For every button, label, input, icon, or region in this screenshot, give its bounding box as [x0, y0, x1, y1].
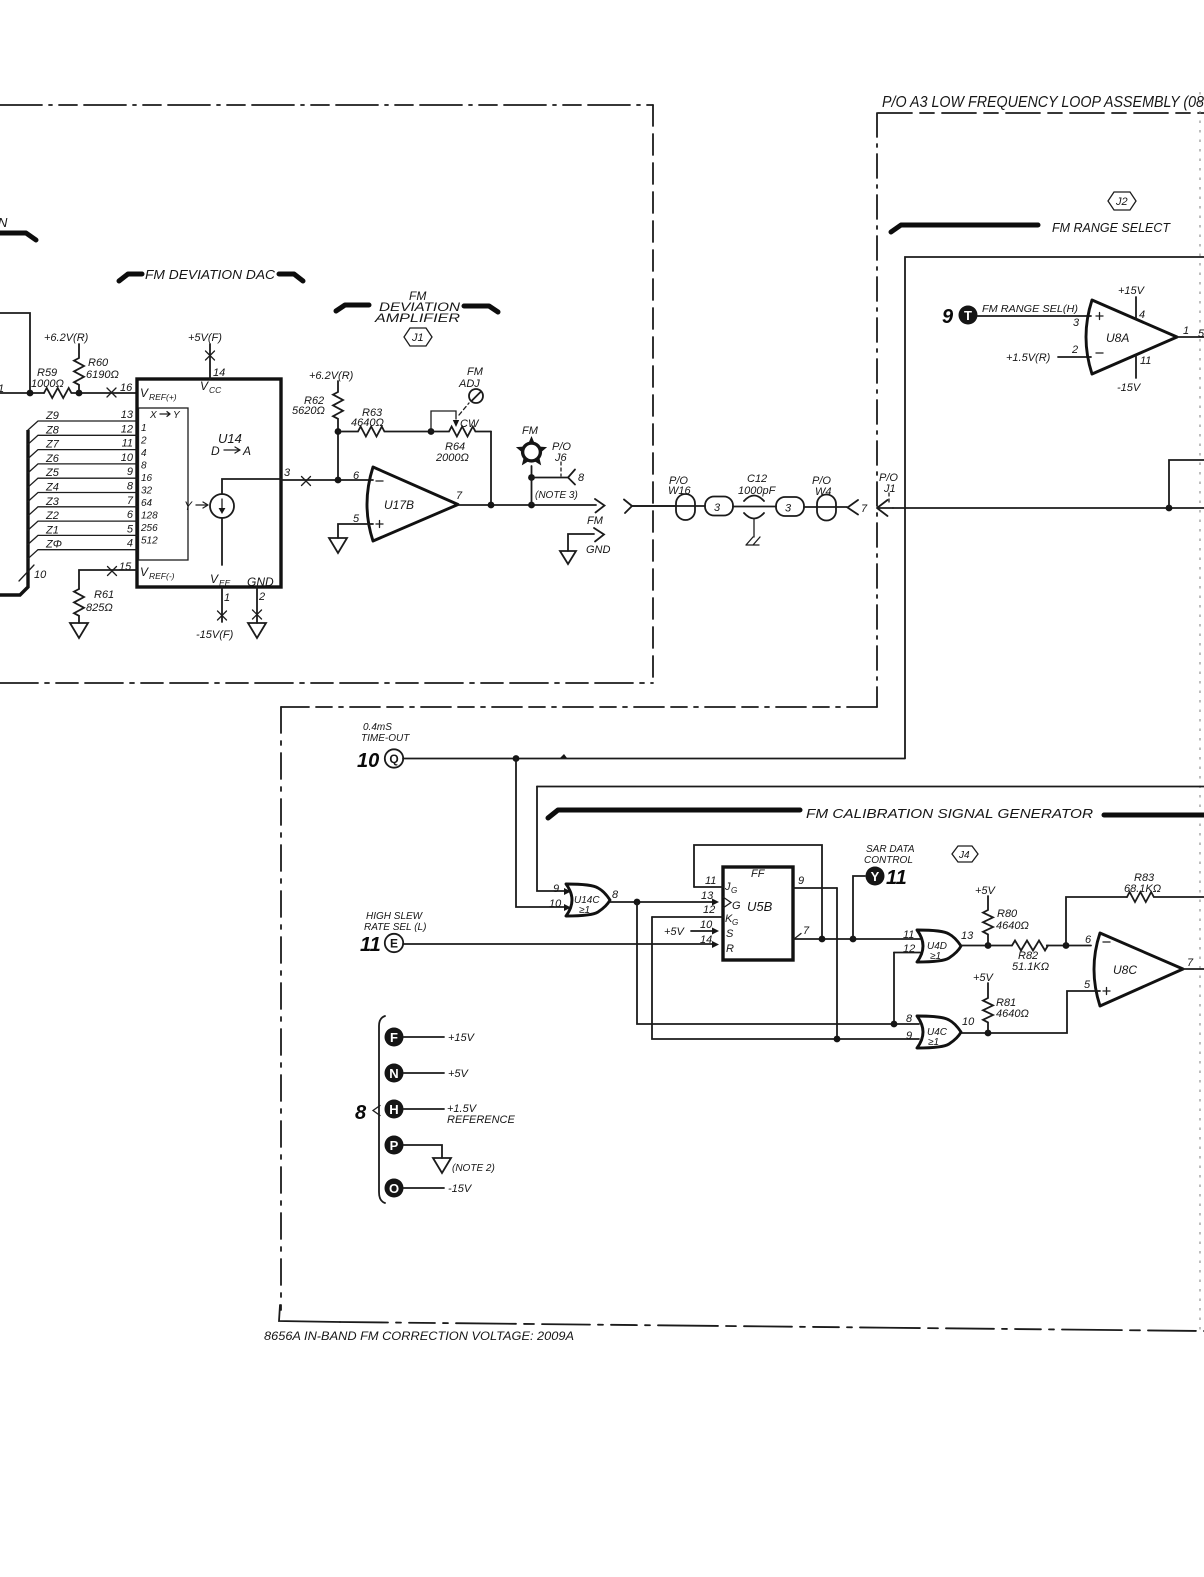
- chevron at W4 end: [848, 500, 859, 515]
- U5B flip-flop outline: [723, 867, 793, 960]
- svg-text:J1: J1: [411, 332, 424, 344]
- wire Z bus line Z2: [28, 509, 137, 530]
- resistor R61: [74, 589, 114, 623]
- vertical from branch to output: [531, 478, 533, 506]
- page edge dotted line: [1199, 92, 1201, 1330]
- wire Y11 down to pin7 rail: [853, 876, 865, 939]
- svg-text:W4: W4: [815, 486, 832, 498]
- svg-text:11: 11: [903, 929, 914, 941]
- K-G pin label: [725, 913, 738, 927]
- current source circle inside U14: [210, 494, 234, 518]
- svg-text:8: 8: [612, 889, 619, 901]
- svg-text:8: 8: [127, 481, 134, 493]
- svg-text:FM RANGE SEL(H): FM RANGE SEL(H): [982, 304, 1078, 315]
- svg-text:12: 12: [703, 904, 715, 916]
- svg-text:Z3: Z3: [45, 496, 60, 508]
- svg-text:10: 10: [549, 898, 562, 910]
- ground below U17B + input: [329, 538, 347, 553]
- svg-text:ZΦ: ZΦ: [45, 539, 62, 551]
- power terminal bracket: [379, 1016, 385, 1203]
- svg-text:2000Ω: 2000Ω: [435, 452, 469, 464]
- node dot output/R64: [488, 502, 495, 509]
- svg-text:J2: J2: [1115, 196, 1128, 208]
- svg-text:J6: J6: [554, 452, 568, 464]
- svg-text:TIME-OUT: TIME-OUT: [361, 733, 410, 744]
- U4D pin 12 wire: [894, 952, 920, 954]
- svg-text:8656A IN-BAND FM CORRECTION VO: 8656A IN-BAND FM CORRECTION VOLTAGE: 200…: [264, 1329, 574, 1343]
- J1 hex badge: [404, 328, 432, 346]
- node dot R62/R63: [335, 428, 342, 435]
- assembly border: left box top edge (dash-dot): [0, 104, 653, 106]
- svg-text:AMPLIFIER: AMPLIFIER: [374, 311, 461, 325]
- svg-text:N: N: [0, 215, 8, 230]
- svg-text:CC: CC: [209, 385, 222, 395]
- svg-text:13: 13: [121, 409, 134, 421]
- op-amp U17B: [367, 467, 458, 541]
- svg-text:J4: J4: [958, 850, 970, 861]
- svg-text:51.1KΩ: 51.1KΩ: [1012, 961, 1049, 973]
- svg-text:7: 7: [1187, 957, 1194, 969]
- svg-text:13: 13: [961, 930, 974, 942]
- OR gate U4C: [917, 1016, 961, 1048]
- svg-text:+5V: +5V: [448, 1068, 470, 1080]
- svg-text:+5V: +5V: [973, 972, 995, 984]
- A3 lower box left edge (dash-dot): [280, 707, 282, 1310]
- heading: FM RANGE SELECT: [891, 220, 1171, 235]
- svg-text:+5V: +5V: [664, 926, 686, 938]
- svg-text:R61: R61: [94, 589, 114, 601]
- shielded segment marker 3 (right): [776, 497, 804, 516]
- A3 lower box bottom-left corner (solid): [279, 1305, 340, 1322]
- svg-text:CONTROL: CONTROL: [864, 855, 913, 866]
- op-amp U8A: [1086, 300, 1177, 374]
- svg-text:U14: U14: [218, 431, 242, 446]
- svg-text:EE: EE: [219, 578, 231, 588]
- svg-text:Z4: Z4: [45, 482, 59, 494]
- svg-text:U8A: U8A: [1106, 331, 1129, 345]
- svg-text:4640Ω: 4640Ω: [351, 417, 384, 429]
- branch wire up and off right edge: [1169, 460, 1204, 508]
- wire to C12: [733, 506, 776, 508]
- resistor R81: [983, 983, 1029, 1033]
- P/O W4 cable marker: [804, 475, 847, 521]
- resistor R80: [983, 896, 1029, 946]
- svg-text:9: 9: [553, 883, 559, 895]
- svg-text:V: V: [210, 572, 219, 586]
- svg-text:D: D: [211, 444, 220, 458]
- svg-text:4640Ω: 4640Ω: [996, 1008, 1029, 1020]
- svg-text:3: 3: [1073, 317, 1080, 329]
- terminal P: [385, 1136, 443, 1159]
- op-amp U8C: [1094, 933, 1183, 1006]
- svg-text:GND: GND: [586, 544, 611, 556]
- pin 7 output wire: [793, 938, 920, 940]
- FM ADJ screw symbol: [458, 366, 484, 415]
- J4 hex badge: [952, 846, 978, 862]
- GND stub arrow and ground: [560, 528, 611, 564]
- node dot at (79,393): [76, 390, 83, 397]
- node dot R63/R64: [428, 428, 435, 435]
- VREF(-) label: [140, 565, 175, 581]
- svg-text:2: 2: [1071, 344, 1078, 356]
- svg-text:1: 1: [224, 592, 230, 604]
- blip on 10Q wire: [560, 754, 567, 758]
- svg-text:+15V: +15V: [448, 1032, 476, 1044]
- svg-text:FM DEVIATION DAC: FM DEVIATION DAC: [145, 267, 276, 282]
- svg-text:CW: CW: [460, 418, 480, 430]
- X mark on pin15 wire: [108, 567, 117, 576]
- wire + input to ground: [338, 524, 373, 538]
- J2 hex badge: [1108, 192, 1136, 210]
- wire 11E to U5B pin 14 R: [403, 943, 713, 945]
- U4D output wire: [961, 945, 1091, 947]
- svg-text:Y: Y: [871, 869, 880, 884]
- svg-text:11: 11: [122, 438, 133, 450]
- svg-text:5620Ω: 5620Ω: [292, 405, 325, 417]
- FM output arrow: [587, 499, 605, 527]
- svg-text:+5V: +5V: [975, 885, 997, 897]
- svg-text:FF: FF: [751, 868, 766, 880]
- svg-text:G: G: [732, 900, 741, 912]
- svg-text:V: V: [140, 386, 149, 400]
- FM test point star: [516, 425, 547, 477]
- feedback wire up to R83: [1066, 897, 1127, 946]
- wire branch x=637 down to y=1024 rail: [637, 902, 919, 1024]
- svg-text:10: 10: [121, 452, 134, 464]
- svg-text:5: 5: [1084, 979, 1091, 991]
- svg-text:64: 64: [141, 498, 153, 509]
- J6 connector chevron pin 8: [568, 470, 575, 485]
- wire branch x=537 down to U14C input 9: [537, 787, 565, 892]
- svg-text:N: N: [389, 1066, 398, 1081]
- svg-text:T: T: [964, 308, 972, 323]
- terminal 11E HIGH SLEW RATE SEL (L): [360, 911, 426, 956]
- terminal N +5V: [385, 1064, 470, 1083]
- svg-text:Z7: Z7: [45, 439, 60, 451]
- clock dynamic indicator: [723, 897, 731, 908]
- P/O J6 label: [552, 441, 571, 464]
- svg-text:(NOTE 2): (NOTE 2): [452, 1163, 495, 1174]
- terminal F +15V: [385, 1028, 476, 1047]
- wire Q down to y=1039 rail: [836, 888, 838, 1039]
- continuation chevron to W16: [624, 500, 676, 514]
- FM range select box outline: [905, 257, 1204, 758]
- svg-text:14: 14: [700, 934, 712, 946]
- svg-text:U5B: U5B: [747, 899, 773, 914]
- wire Z bus line Z5: [28, 466, 137, 487]
- svg-text:10: 10: [962, 1016, 975, 1028]
- wire J1 to right edge: [893, 507, 1204, 509]
- wire Z bus line Z6: [28, 452, 137, 473]
- svg-text:10: 10: [700, 919, 713, 931]
- resistor R59: [31, 367, 137, 398]
- bus width slash 10: [19, 565, 47, 581]
- svg-text:Z6: Z6: [45, 453, 60, 465]
- svg-text:FM: FM: [587, 515, 604, 527]
- svg-text:+15V: +15V: [1118, 285, 1146, 297]
- resistor R82: [1012, 940, 1049, 973]
- svg-text:11: 11: [705, 875, 716, 887]
- input arrowhead pin 9: [564, 888, 571, 895]
- svg-text:6: 6: [1085, 934, 1092, 946]
- svg-text:E: E: [390, 937, 398, 951]
- svg-text:5: 5: [127, 523, 134, 535]
- svg-text:4: 4: [1139, 309, 1145, 321]
- pin 9 Q output wire: [793, 887, 837, 889]
- svg-text:6: 6: [127, 509, 134, 521]
- svg-text:825Ω: 825Ω: [86, 602, 113, 614]
- node dot R81: [985, 1030, 992, 1037]
- svg-text:O: O: [389, 1181, 399, 1196]
- wire Z bus line Z1: [28, 523, 137, 544]
- ground below P (NOTE 2): [433, 1158, 495, 1174]
- shielded segment marker 3 (left): [705, 497, 733, 516]
- J6 connector dash line: [560, 462, 562, 476]
- svg-text:3: 3: [785, 503, 792, 515]
- svg-text:REFERENCE: REFERENCE: [447, 1114, 516, 1126]
- svg-text:G: G: [732, 918, 738, 927]
- heading: FM DEVIATION DAC: [119, 267, 303, 282]
- U8C + input wire: [961, 991, 1100, 1033]
- A3 assembly top edge (dashed): [878, 112, 1204, 114]
- resistor R63: [338, 407, 431, 437]
- VCC label: [200, 379, 222, 395]
- svg-text:Z1: Z1: [45, 524, 59, 536]
- wire to U8A - input: [1058, 356, 1091, 358]
- wire branch x=516 down to U14C input 10: [516, 759, 565, 908]
- wire Z bus line Z0: [28, 538, 137, 559]
- svg-text:4640Ω: 4640Ω: [996, 920, 1029, 932]
- svg-text:9: 9: [798, 875, 804, 887]
- svg-text:U8C: U8C: [1113, 963, 1137, 977]
- svg-text:Q: Q: [389, 752, 398, 766]
- svg-text:R: R: [726, 943, 734, 955]
- U14 inner X->Y decoder box: [139, 408, 189, 560]
- wire Z bus line Z4: [28, 481, 137, 502]
- terminal H +1.5V REFERENCE: [385, 1100, 516, 1127]
- svg-text:16: 16: [141, 473, 153, 484]
- assembly border: left box bottom edge (dash-dot): [0, 682, 653, 684]
- node dot 10Q/U14C branch: [513, 755, 520, 762]
- svg-text:8: 8: [141, 461, 147, 472]
- A3 lower box bottom edge (dash-dot): [340, 1322, 1204, 1331]
- terminal 10Q 0.4mS TIME-OUT: [357, 722, 410, 772]
- svg-text:11: 11: [1140, 355, 1151, 367]
- pin 12 K wire: [652, 916, 723, 918]
- svg-text:SAR DATA: SAR DATA: [866, 844, 915, 855]
- resistor R62: [292, 381, 343, 431]
- D->A label: [211, 444, 251, 458]
- wire y=786 off right edge: [537, 786, 1204, 788]
- svg-text:8: 8: [578, 472, 585, 484]
- wire to U8A + input: [977, 315, 1091, 317]
- wire pin3 to U17B input node: [281, 479, 373, 481]
- pin 11 wire: [694, 886, 723, 888]
- resistor R60: [74, 344, 119, 393]
- svg-text:+1.5V(R): +1.5V(R): [1006, 352, 1051, 364]
- node dot U14C output branch: [634, 899, 641, 906]
- svg-text:C12: C12: [747, 473, 767, 485]
- terminal 9T FM RANGE SEL(H): [942, 304, 1078, 328]
- svg-text:7: 7: [127, 495, 134, 507]
- X mark pin2: [253, 610, 262, 619]
- S pin wire: [691, 930, 713, 932]
- potentiometer R64: [431, 411, 491, 464]
- VREF(+) label: [140, 386, 177, 402]
- svg-text:-15V: -15V: [448, 1183, 473, 1195]
- wire Z bus line Z7: [28, 438, 137, 459]
- svg-text:11: 11: [360, 934, 381, 956]
- feedback loop Q-bar top: [694, 845, 822, 939]
- Z data bus (thick): [0, 430, 28, 595]
- P/O W16 cable marker: [632, 475, 705, 520]
- svg-text:3: 3: [284, 467, 291, 479]
- input arrowhead pin 10: [564, 904, 571, 911]
- svg-text:16: 16: [120, 382, 133, 394]
- arrowhead at S pin: [712, 928, 719, 935]
- svg-text:7: 7: [803, 925, 810, 937]
- OR gate U14C: [566, 884, 610, 916]
- svg-text:X: X: [149, 410, 157, 421]
- svg-text:32: 32: [141, 486, 153, 497]
- svg-text:+6.2V(R): +6.2V(R): [309, 370, 354, 382]
- node dot star/J6 branch: [528, 474, 535, 481]
- svg-text:0.4mS: 0.4mS: [363, 722, 392, 733]
- svg-text:H: H: [389, 1102, 398, 1117]
- svg-text:14: 14: [213, 367, 225, 379]
- svg-text:-15V(F): -15V(F): [196, 629, 234, 641]
- svg-text:128: 128: [141, 511, 158, 522]
- svg-text:12: 12: [121, 423, 133, 435]
- svg-text:REF(+): REF(+): [149, 392, 177, 402]
- ground below R61: [70, 623, 88, 638]
- svg-text:+6.2V(R): +6.2V(R): [44, 332, 89, 344]
- svg-text:FM: FM: [467, 366, 484, 378]
- svg-text:2: 2: [258, 591, 265, 603]
- terminal O -15V: [385, 1179, 473, 1198]
- svg-text:Z5: Z5: [45, 467, 60, 479]
- svg-text:-15V: -15V: [1117, 382, 1142, 394]
- svg-text:ADJ: ADJ: [458, 378, 480, 390]
- node dot pin7/SAR: [850, 936, 857, 943]
- node dot pin7/loop: [819, 936, 826, 943]
- assembly border: left box right edge: [652, 105, 654, 683]
- OR gate U4D: [917, 930, 961, 962]
- X mark pin1: [218, 611, 227, 620]
- svg-text:RATE SEL (L): RATE SEL (L): [364, 922, 426, 933]
- svg-text:FM RANGE SELECT: FM RANGE SELECT: [1052, 220, 1171, 235]
- U14C output wire to U5B clock: [610, 901, 715, 903]
- svg-text:15: 15: [119, 561, 132, 573]
- svg-text:(NOTE 3): (NOTE 3): [535, 490, 578, 501]
- svg-text:10: 10: [357, 750, 379, 772]
- wire Z bus line Z3: [28, 495, 137, 516]
- svg-text:A: A: [242, 444, 251, 458]
- svg-text:6: 6: [353, 470, 360, 482]
- X mark on pin14 wire: [206, 351, 215, 360]
- heading: FM DEVIATION AMPLIFIER: [336, 289, 498, 325]
- wire pin 11 to -15V: [1135, 355, 1137, 378]
- P/O J1 connector label: [879, 472, 898, 505]
- heading fragment swoosh: [0, 233, 36, 240]
- wire pin15 to R61: [79, 570, 137, 589]
- wire branch to J6 pin 8: [532, 477, 569, 479]
- svg-text:Z8: Z8: [45, 424, 60, 436]
- svg-text:7: 7: [861, 503, 868, 515]
- svg-text:Z2: Z2: [45, 510, 59, 522]
- svg-text:1000Ω: 1000Ω: [31, 378, 64, 390]
- arrowhead at R pin: [712, 941, 719, 948]
- svg-text:9: 9: [942, 306, 954, 328]
- svg-text:256: 256: [140, 523, 158, 534]
- wire +5V(F) to pin 14: [209, 344, 211, 379]
- node dot R80: [985, 942, 992, 949]
- svg-text:≥1: ≥1: [928, 1037, 939, 1048]
- wire current source to pin 3: [222, 479, 281, 494]
- X mark on pin3 wire: [302, 477, 311, 486]
- Y-> arrow label: [184, 499, 208, 513]
- node dot R82/R83 junction: [1063, 942, 1070, 949]
- svg-text:R80: R80: [997, 908, 1018, 920]
- svg-text:S: S: [726, 928, 734, 940]
- heading: FM CALIBRATION SIGNAL GENERATOR: [548, 806, 1204, 821]
- node dot at x=1169: [1166, 505, 1173, 512]
- wire y=393 into R59: [0, 392, 44, 394]
- svg-text:512: 512: [141, 536, 158, 547]
- svg-text:≥1: ≥1: [579, 905, 590, 916]
- ground below pin2: [248, 623, 266, 638]
- svg-text:V: V: [200, 379, 209, 393]
- svg-text:≥1: ≥1: [930, 951, 941, 962]
- wire branch x=652 down to y=1039 rail: [652, 917, 919, 1039]
- svg-text:8: 8: [355, 1102, 367, 1124]
- svg-text:1: 1: [141, 423, 147, 434]
- node dot output/star: [528, 502, 535, 509]
- svg-text:4: 4: [141, 448, 147, 459]
- svg-text:HIGH SLEW: HIGH SLEW: [366, 911, 424, 922]
- svg-text:4: 4: [127, 538, 133, 550]
- J-G pin label: [724, 881, 737, 895]
- svg-text:8: 8: [906, 1013, 913, 1025]
- svg-text:FM: FM: [522, 425, 539, 437]
- svg-text:7: 7: [456, 490, 463, 502]
- svg-text:9: 9: [127, 466, 133, 478]
- wire R62 down to inverting node: [337, 431, 339, 480]
- J1 entry arrow: [877, 500, 893, 516]
- VEE label: [210, 572, 231, 588]
- node dot at inverting input: [335, 477, 342, 484]
- svg-text:GND: GND: [247, 575, 274, 589]
- svg-text:68.1KΩ: 68.1KΩ: [1124, 883, 1161, 895]
- svg-text:9: 9: [906, 1030, 912, 1042]
- svg-text:+5V(F): +5V(F): [188, 332, 222, 344]
- pin 2 wire to ground: [256, 587, 258, 623]
- svg-text:6190Ω: 6190Ω: [86, 369, 119, 381]
- U8A output wire: [1177, 336, 1204, 338]
- Q-bar tick: [794, 934, 801, 940]
- svg-text:FM CALIBRATION SIGNAL GENERATO: FM CALIBRATION SIGNAL GENERATOR: [806, 806, 1093, 821]
- terminal Y11 SAR DATA CONTROL: [864, 844, 915, 889]
- svg-text:V: V: [140, 565, 149, 579]
- svg-text:2: 2: [140, 436, 147, 447]
- A3 assembly notch edge y=707 (dash-dot): [281, 706, 877, 708]
- wire Z bus line Z9: [28, 409, 137, 430]
- terminal group label 8: [355, 1102, 380, 1124]
- svg-text:F: F: [390, 1030, 398, 1045]
- svg-text:Z9: Z9: [45, 410, 59, 422]
- X mark on pin16 wire: [107, 388, 116, 397]
- svg-text:G: G: [731, 886, 737, 895]
